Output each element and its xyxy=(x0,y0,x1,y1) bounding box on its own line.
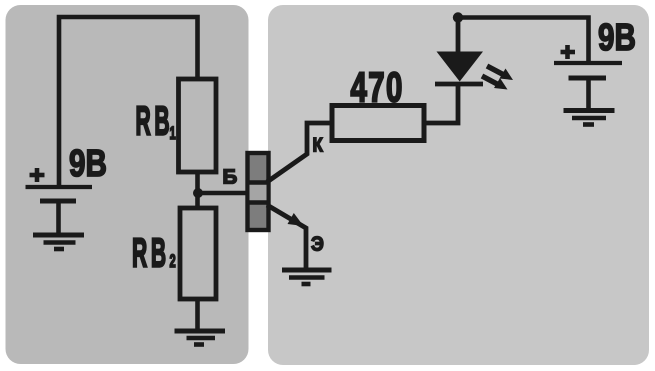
transistor VT1 package xyxy=(248,153,269,230)
svg-text:Э: Э xyxy=(311,234,324,256)
resistor R1 470 body xyxy=(332,106,424,141)
LED arrow 1 xyxy=(487,66,513,80)
wire LED anode to top node xyxy=(456,18,461,54)
wire battery BAT1 plus to RB1 top xyxy=(59,17,198,186)
ground emitter xyxy=(282,270,332,284)
battery BAT2 plus sign xyxy=(561,45,576,59)
node top junction dot xyxy=(453,12,463,22)
ground BAT1 xyxy=(33,235,84,249)
node Б junction dot xyxy=(193,188,203,198)
LED VD1 triangle xyxy=(437,52,484,82)
battery BAT1 negative short plate xyxy=(40,199,76,204)
wire top node to battery BAT2 xyxy=(458,18,589,63)
battery BAT2 negative short plate xyxy=(569,76,607,81)
ground BAT2 xyxy=(564,111,615,125)
wire node to RB2 top xyxy=(195,193,200,208)
wire BAT1 negative to ground xyxy=(56,201,61,234)
svg-text:Б: Б xyxy=(223,166,238,189)
wire emitter to ground xyxy=(267,205,306,270)
wire RB1 bottom to node xyxy=(195,172,200,193)
wire resistor 470 to LED cathode xyxy=(424,84,458,123)
svg-text:RB: RB xyxy=(132,230,170,276)
svg-text:2: 2 xyxy=(170,251,176,271)
resistor RB1 xyxy=(179,79,217,172)
battery BAT2 positive long plate xyxy=(554,61,622,65)
svg-text:9В: 9В xyxy=(598,17,636,59)
emitter arrowhead xyxy=(288,213,304,226)
svg-text:1: 1 xyxy=(170,123,176,143)
LED VD1 cathode bar xyxy=(435,82,483,87)
wire node to transistor base xyxy=(198,191,248,196)
battery BAT1 plus sign xyxy=(30,168,45,182)
label RB2 xyxy=(132,230,176,276)
svg-text:470: 470 xyxy=(351,64,404,111)
wire collector to resistor 470 xyxy=(267,123,332,182)
LED arrow 2 xyxy=(482,76,508,90)
battery BAT1 positive long plate xyxy=(26,185,93,189)
wire RB2 bottom to ground xyxy=(195,299,200,331)
label RB1 xyxy=(136,98,176,144)
wire BAT2 negative to ground xyxy=(586,78,591,110)
svg-text:RB: RB xyxy=(136,98,174,144)
resistor RB2 xyxy=(180,208,216,299)
svg-text:К: К xyxy=(313,135,324,157)
svg-text:9В: 9В xyxy=(69,143,107,185)
ground below RB2 xyxy=(175,331,226,345)
